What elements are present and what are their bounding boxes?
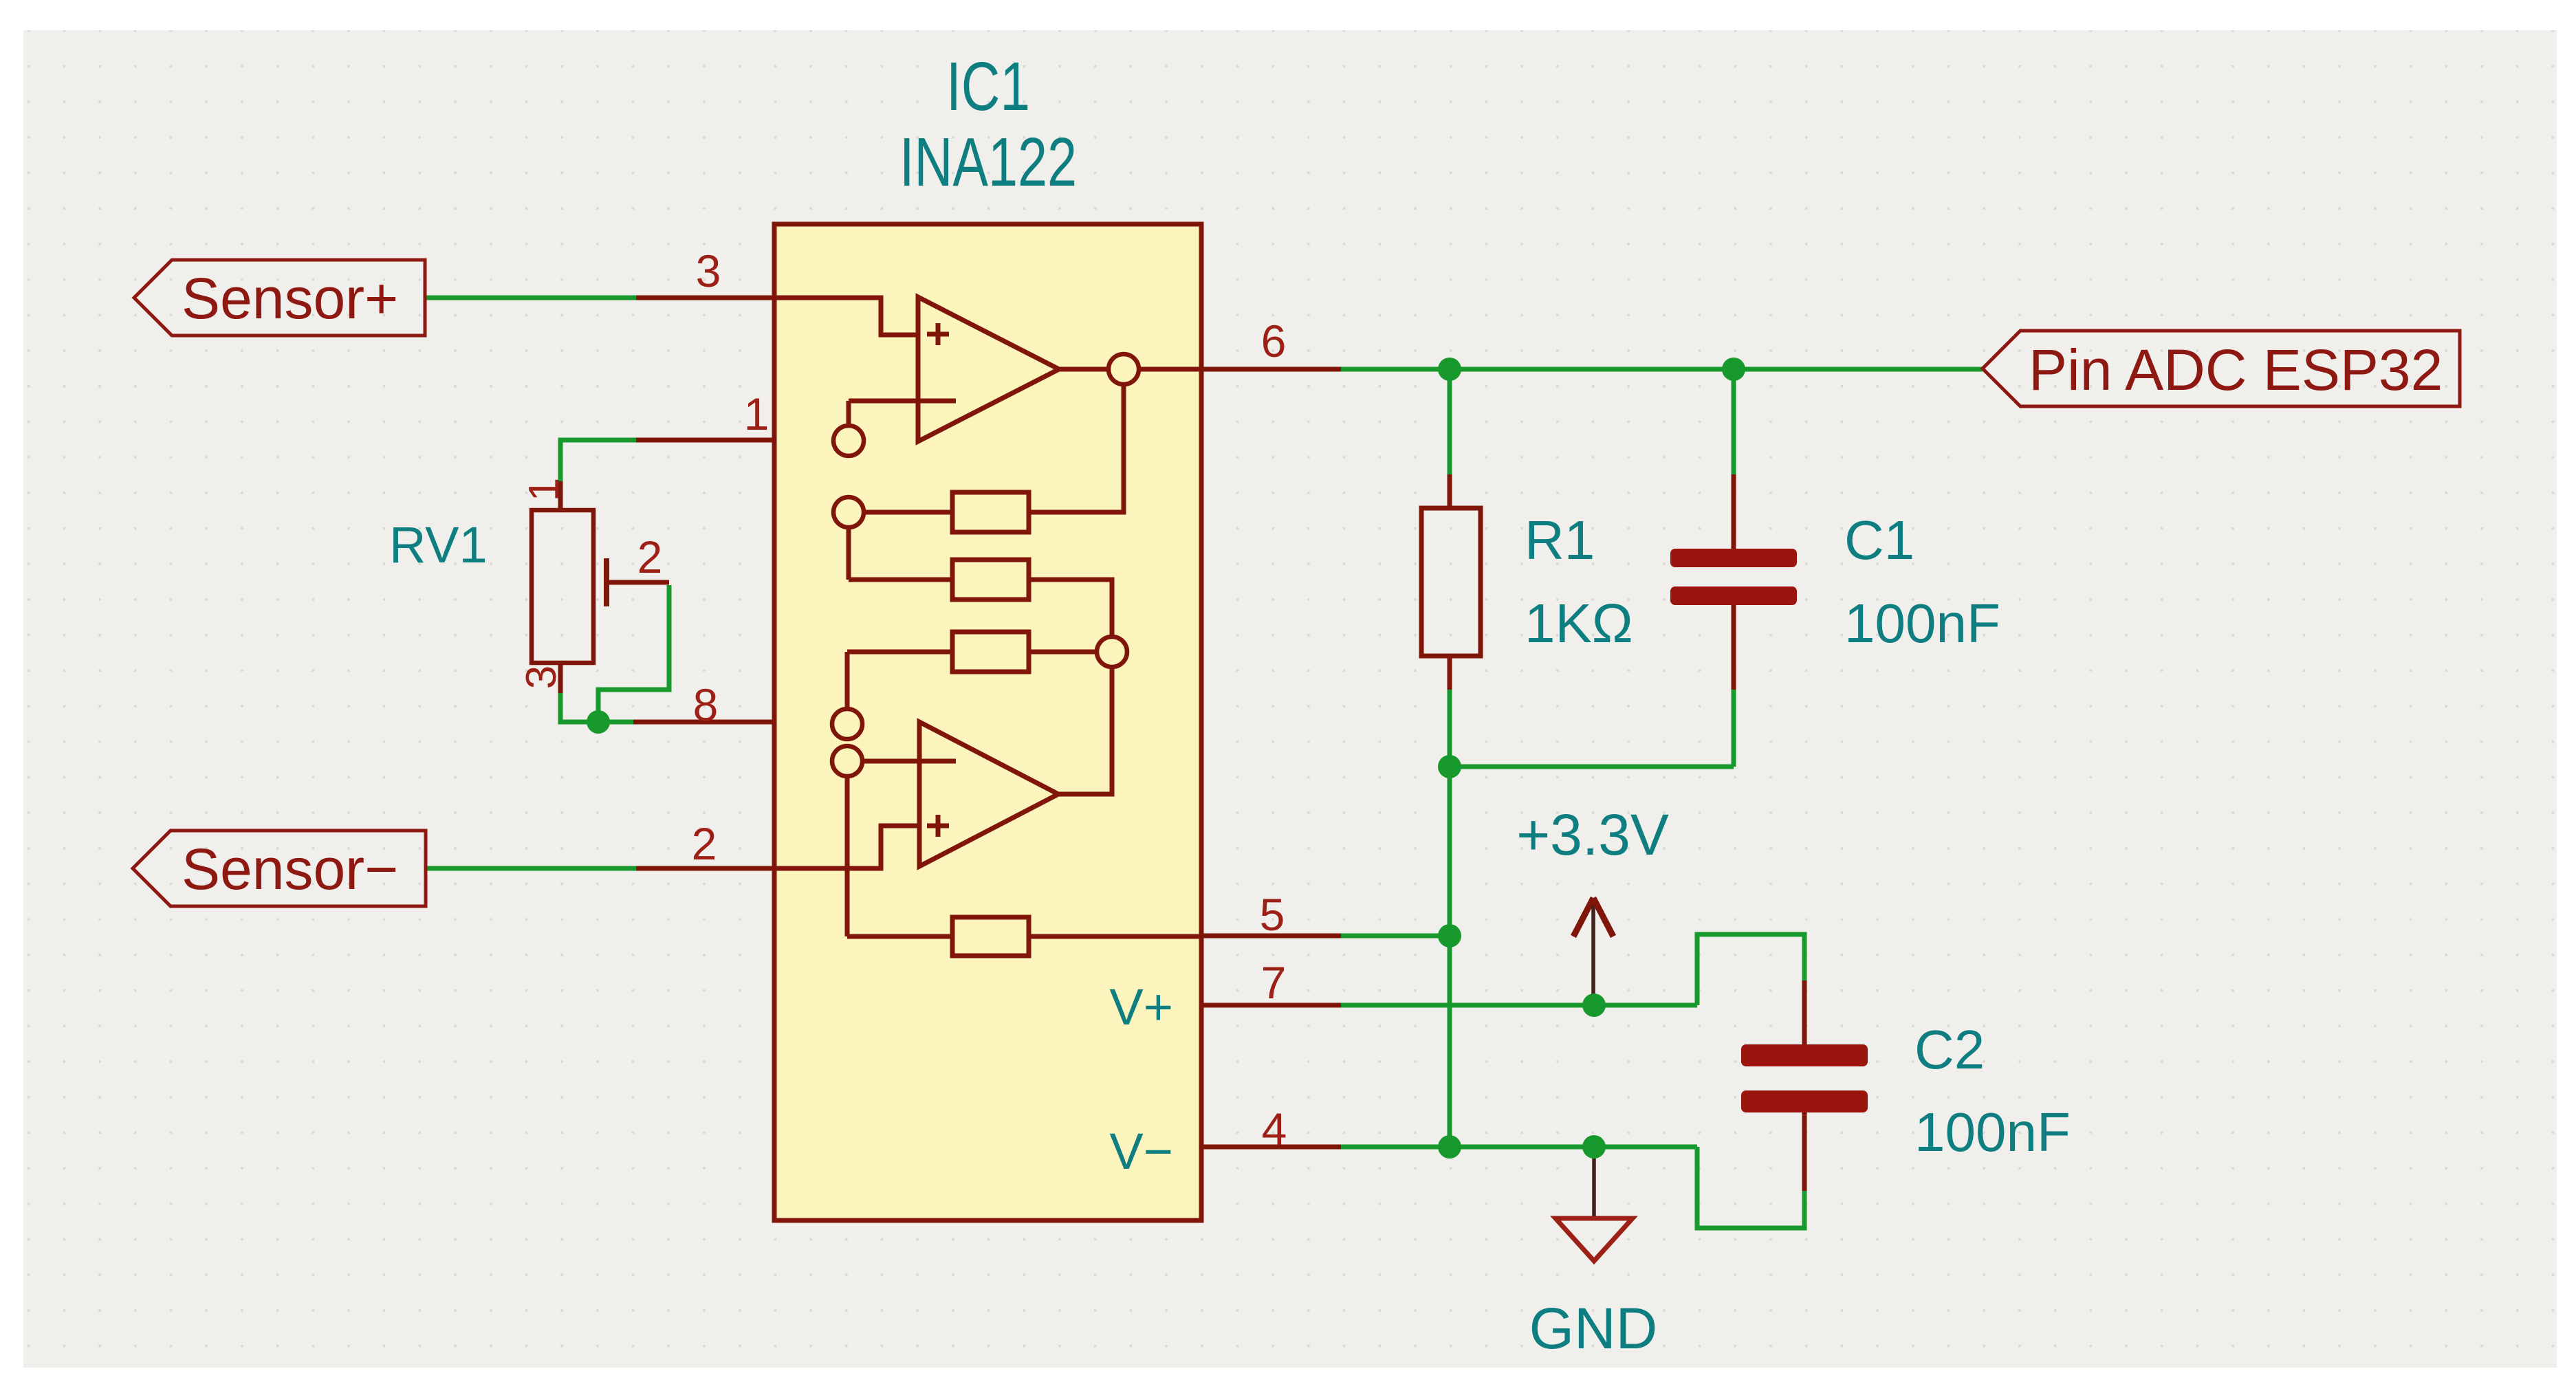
svg-text:INA122: INA122 (899, 124, 1077, 201)
svg-text:5: 5 (1260, 889, 1285, 940)
svg-text:7: 7 (1261, 957, 1287, 1008)
svg-text:1: 1 (744, 388, 769, 439)
svg-text:Sensor+: Sensor+ (182, 266, 398, 331)
svg-text:C1: C1 (1844, 509, 1914, 571)
svg-text:+3.3V: +3.3V (1516, 802, 1669, 867)
svg-text:Pin ADC ESP32: Pin ADC ESP32 (2029, 338, 2443, 402)
svg-text:RV1: RV1 (389, 516, 488, 573)
svg-text:100nF: 100nF (1914, 1101, 2071, 1163)
svg-text:1: 1 (521, 478, 568, 501)
svg-text:100nF: 100nF (1844, 593, 2000, 654)
svg-text:3: 3 (696, 245, 721, 296)
svg-text:R1: R1 (1525, 509, 1595, 571)
svg-text:6: 6 (1261, 316, 1287, 366)
svg-text:Sensor−: Sensor− (182, 837, 398, 901)
svg-text:2: 2 (692, 818, 717, 869)
svg-text:8: 8 (693, 679, 719, 730)
svg-text:V−: V− (1109, 1123, 1173, 1180)
svg-text:IC1: IC1 (946, 48, 1030, 125)
svg-text:3: 3 (518, 666, 565, 689)
svg-text:2: 2 (637, 531, 663, 582)
svg-text:V+: V+ (1109, 978, 1173, 1035)
svg-text:1KΩ: 1KΩ (1525, 593, 1633, 654)
svg-text:GND: GND (1529, 1296, 1658, 1361)
svg-text:4: 4 (1262, 1104, 1287, 1154)
svg-text:C2: C2 (1914, 1019, 1985, 1080)
